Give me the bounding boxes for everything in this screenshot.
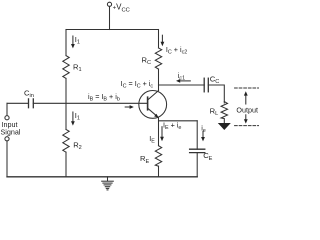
wire Cin to base [33, 102, 147, 104]
resistor RC [155, 48, 161, 69]
svg-text:Output: Output [236, 105, 258, 114]
label Input Signal [1, 120, 21, 137]
transistor Q1 [139, 91, 167, 119]
wire emitter node to CE branch [159, 120, 198, 122]
current arrow I1 upper [71, 36, 75, 48]
wire CC to RL [208, 85, 224, 103]
dashed line output bottom [235, 125, 259, 127]
current arrow IE [160, 127, 164, 142]
capacitor Cin [29, 99, 34, 108]
wire collector node to CC [159, 84, 205, 86]
dashed line output top [235, 87, 259, 89]
VCC terminal [107, 2, 111, 29]
resistor RE [155, 146, 161, 167]
input terminal upper [5, 103, 9, 119]
output arrow down [244, 115, 248, 124]
resistor RL [221, 102, 227, 124]
current arrow IC+ic2 [161, 35, 165, 46]
svg-text:Signal: Signal [1, 128, 21, 137]
wire left branch upper [65, 30, 67, 56]
wire top rail [66, 29, 159, 31]
wire bottom rail [7, 176, 197, 178]
wire left branch middle [65, 78, 67, 129]
wire CE branch lower [196, 153, 198, 177]
current arrow iB on base wire [125, 105, 134, 109]
capacitor CC [204, 78, 208, 92]
wire CE branch upper [196, 121, 198, 149]
ground symbol bottom [102, 177, 114, 190]
wire collector up to RC [158, 69, 160, 91]
wire left branch lower [65, 152, 67, 177]
current arrow ic1 [176, 79, 190, 83]
resistor R1 [63, 56, 69, 79]
input terminal lower [5, 137, 9, 177]
wire RC top to rail [158, 30, 160, 48]
current arrow I1 lower [71, 112, 75, 126]
ground triangle below RL [219, 124, 230, 130]
capacitor CE [190, 149, 205, 152]
wire RE bottom [158, 166, 160, 177]
current arrow ie [201, 132, 205, 142]
output arrow up [244, 91, 248, 104]
wire emitter down to node [158, 118, 160, 146]
wire input to Cin [7, 102, 29, 104]
resistor R2 [63, 129, 69, 152]
